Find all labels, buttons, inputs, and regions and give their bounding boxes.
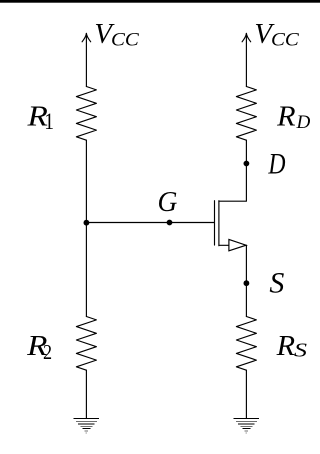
ground (right) — [234, 418, 260, 434]
node S dot — [244, 280, 250, 286]
ground (left) — [74, 418, 100, 434]
transistor Q1 channel bar — [218, 201, 220, 246]
wire: gate wire from junction to MOSFET gate — [86, 222, 213, 224]
node D dot — [244, 161, 250, 167]
svg-text:D: D — [268, 148, 286, 180]
VCC arrow left — [82, 33, 91, 42]
wire: R2 bottom to left ground — [85, 370, 87, 418]
resistor RD — [236, 87, 256, 141]
svg-text:R: R — [276, 101, 296, 133]
resistor R2 — [76, 317, 96, 371]
transistor Q1 source lead — [219, 244, 247, 246]
transistor Q1 drain lead — [219, 200, 247, 202]
node G dot on gate wire — [167, 220, 173, 226]
svg-text:2: 2 — [43, 340, 52, 364]
svg-text:1: 1 — [44, 108, 54, 134]
svg-text:CC: CC — [271, 30, 299, 51]
wire: MOSFET source to RS top (through node S) — [245, 245, 247, 316]
svg-text:S: S — [269, 266, 284, 299]
svg-text:D: D — [296, 112, 311, 133]
top rule — [0, 0, 320, 3]
wire: right VCC lead — [245, 34, 247, 87]
svg-text:R: R — [276, 330, 296, 362]
VCC arrow right — [242, 33, 251, 42]
resistor R1 — [76, 87, 96, 141]
wire: R1 bottom to R2 top (through gate junction) — [85, 140, 87, 316]
svg-text:G: G — [158, 186, 178, 218]
transistor Q1 gate bar — [214, 201, 216, 245]
transistor Q1 source arrow — [229, 239, 246, 250]
node G junction dot — [84, 220, 90, 226]
svg-text:S: S — [294, 340, 307, 362]
wire: RS bottom to right ground — [245, 370, 247, 418]
svg-text:CC: CC — [111, 30, 139, 51]
wire: left VCC lead — [85, 34, 87, 87]
resistor RS — [236, 317, 256, 371]
wire: RD bottom to MOSFET drain (through node D) — [245, 140, 247, 201]
